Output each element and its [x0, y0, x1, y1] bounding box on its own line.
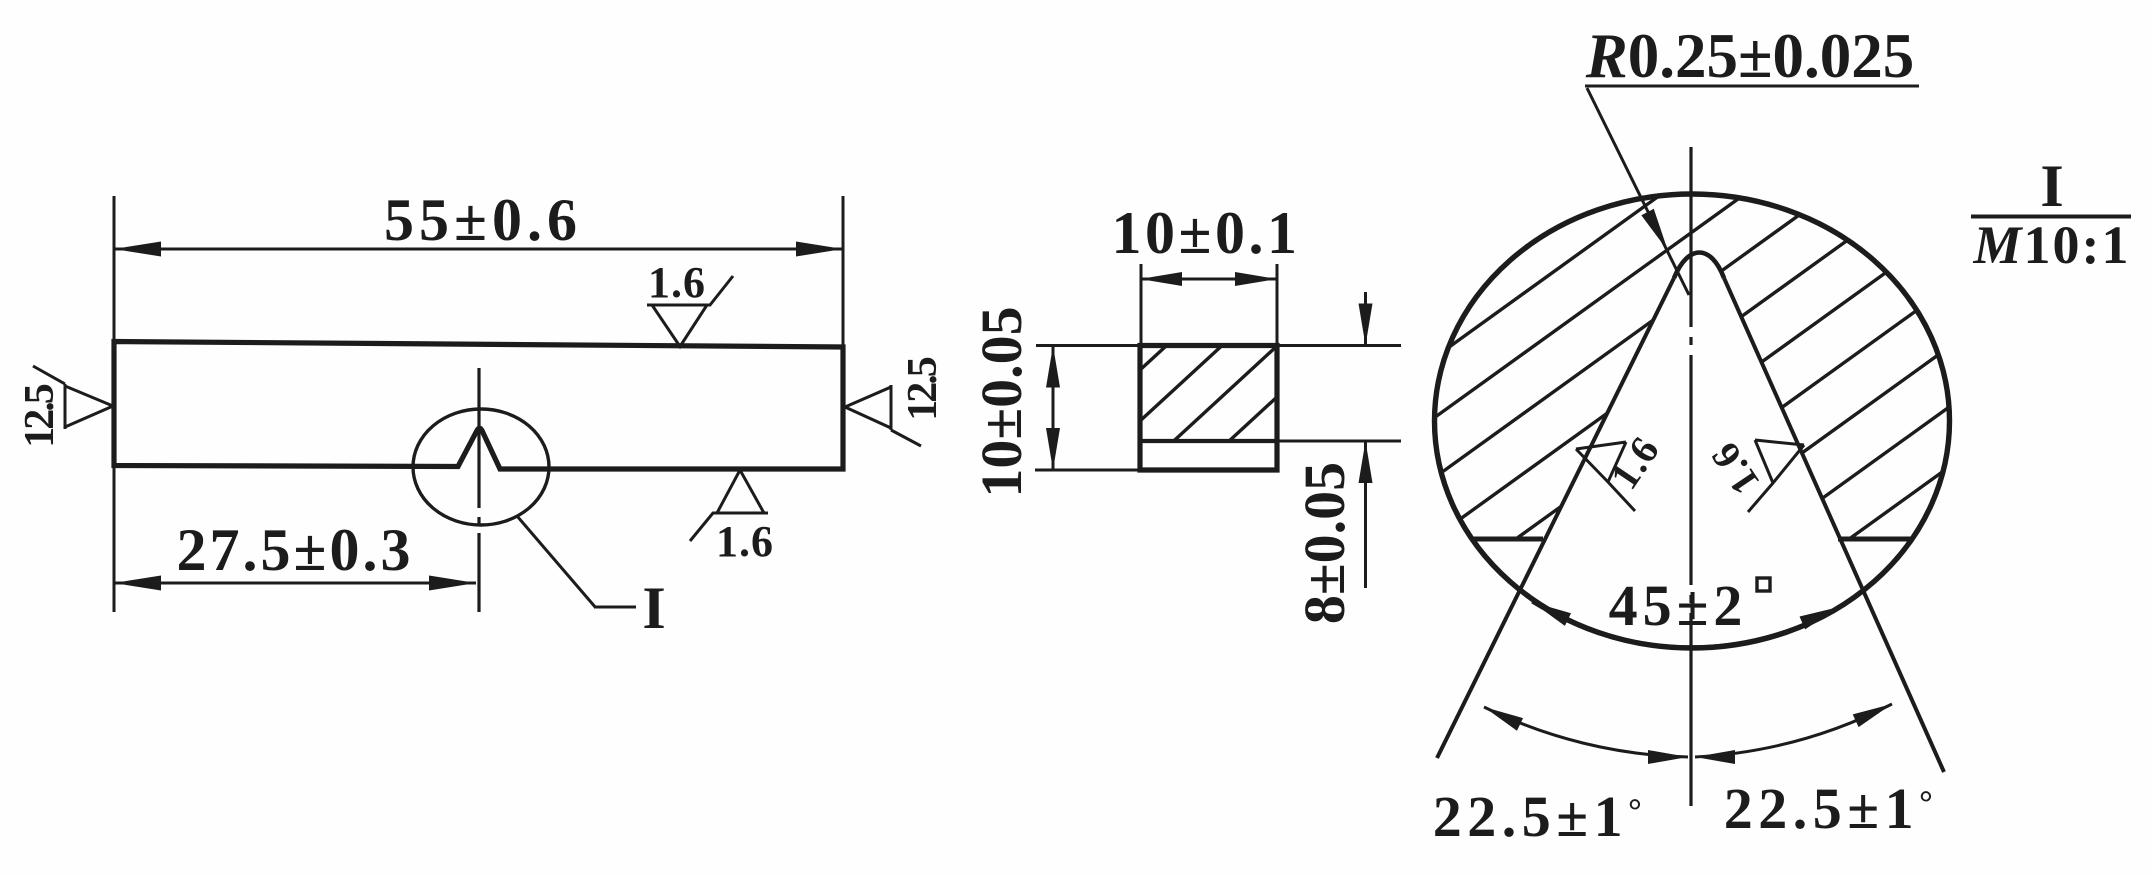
- leader arrow R0.25: [1641, 209, 1674, 254]
- svg-text:12.5: 12.5: [17, 384, 63, 448]
- surface line left of notch: [1473, 537, 1543, 542]
- svg-text:I: I: [2040, 153, 2063, 219]
- detail hatching: [1425, 0, 1960, 876]
- ext line top-right (8 dim): [1277, 344, 1401, 347]
- svg-text:1.6: 1.6: [716, 517, 774, 566]
- text 12.5 (right, rotated): [900, 357, 946, 421]
- notch root radius dome: [1674, 253, 1724, 279]
- detail circle I: [413, 409, 549, 525]
- 22.5° left arc arrows: [1481, 701, 1688, 764]
- dimension line 27.5: [114, 582, 476, 585]
- arrow 27.5 left: [114, 576, 161, 591]
- dimension line 55: [114, 248, 843, 251]
- title divider line: [1971, 215, 2131, 219]
- cross-section hatching: [1138, 237, 1285, 525]
- detail circle outline: [1435, 194, 1950, 648]
- svg-text:22.5±1°: 22.5±1°: [1724, 776, 1938, 841]
- text 1.6 (bottom): [716, 517, 774, 566]
- text R0.25±0.025: [1585, 21, 1915, 91]
- text 1.6 right flank (rotated): [1701, 434, 1768, 503]
- leader line R0.25: [1587, 88, 1689, 295]
- extension line right (55 dim): [842, 196, 845, 347]
- 45° arc right arrow: [1800, 601, 1842, 630]
- surface finish 1.6 right flank: [1748, 440, 1804, 512]
- 22.5° left arc: [1484, 707, 1688, 757]
- dimension text 55±0.6: [384, 187, 582, 253]
- arrow 10±0.1 right: [1235, 272, 1277, 286]
- 22.5° right arc arrows: [1695, 698, 1895, 764]
- svg-text:55±0.6: 55±0.6: [384, 187, 582, 253]
- arrow 10±0.05 down: [1046, 428, 1060, 470]
- arrow 55 right: [796, 242, 843, 257]
- svg-text:22.5±1°: 22.5±1°: [1433, 784, 1647, 849]
- specimen bar outline (left view): [114, 342, 843, 470]
- dimension text 27.5±0.3: [177, 517, 414, 583]
- leader line to label I: [517, 516, 636, 608]
- text 12.5 (left, rotated): [17, 384, 63, 448]
- surface finish symbol 1.6 (bottom edge): [690, 470, 768, 541]
- notch depth line in section: [1140, 439, 1277, 443]
- 22.5° right arc: [1695, 704, 1892, 757]
- dim 8±0.05 upper arrow+shaft: [1359, 292, 1373, 346]
- ext line bottom-left (10±0.05): [1035, 469, 1140, 472]
- arrow 55 left: [114, 242, 161, 257]
- arrow 10±0.05 up: [1046, 346, 1060, 388]
- surface line right of notch: [1838, 537, 1911, 542]
- svg-text:10±0.1: 10±0.1: [1112, 200, 1301, 266]
- label I (left view): [642, 575, 665, 641]
- svg-text:8±0.05: 8±0.05: [1292, 462, 1357, 624]
- 45° arc left arrow: [1529, 596, 1571, 626]
- ext line inner-right (8 dim): [1277, 440, 1401, 443]
- extension line left (27.5 dim): [113, 467, 116, 612]
- surface finish symbol 1.6 (top edge): [647, 276, 733, 347]
- dim 8±0.05 lower arrow+shaft: [1359, 441, 1373, 588]
- dimension line 10±0.1: [1140, 278, 1277, 281]
- svg-text:45±2: 45±2: [1609, 573, 1748, 638]
- surface finish 1.6 left flank: [1576, 442, 1635, 511]
- svg-text:M10:1: M10:1: [1973, 215, 2131, 275]
- 45° dimension arc: [1532, 602, 1839, 647]
- extension line left (55 dim): [113, 196, 116, 342]
- arrow 27.5 right: [429, 576, 476, 591]
- ext lines up (10±0.1): [1141, 264, 1277, 346]
- notch left flank: [1437, 278, 1674, 758]
- svg-text:12.5: 12.5: [900, 357, 946, 421]
- svg-text:R0.25±0.025: R0.25±0.025: [1585, 21, 1915, 91]
- svg-text:I: I: [642, 575, 665, 641]
- text 1.6 left flank (rotated): [1601, 428, 1668, 497]
- text 1.6 (top): [648, 258, 706, 307]
- dimension text 8±0.05 (rotated): [1292, 462, 1357, 624]
- dimension line 10±0.05: [1052, 346, 1055, 471]
- underline R0.25: [1585, 85, 1919, 88]
- svg-text:1.6: 1.6: [648, 258, 706, 307]
- dimension text 10±0.1: [1112, 200, 1301, 266]
- label M10:1: [1973, 215, 2131, 275]
- svg-text:27.5±0.3: 27.5±0.3: [177, 517, 414, 583]
- detail centerline: [1689, 147, 1692, 806]
- notch centerline (left view): [477, 368, 480, 612]
- text 45±2°: [1609, 573, 1770, 638]
- cross-section square outline: [1140, 346, 1277, 471]
- ext line top-left (10±0.05): [1036, 344, 1140, 347]
- text 22.5±1° right: [1724, 776, 1938, 841]
- dimension text 10±0.05 (rotated): [969, 306, 1034, 497]
- text 22.5±1° left: [1433, 784, 1647, 849]
- surface finish symbol 12.5 (right end): [845, 385, 921, 446]
- notch right flank: [1724, 278, 1944, 772]
- arrow 10±0.1 left: [1140, 272, 1182, 286]
- label I (detail title): [2040, 153, 2063, 219]
- surface finish symbol 12.5 (left end): [33, 366, 113, 429]
- svg-text:10±0.05: 10±0.05: [969, 306, 1034, 497]
